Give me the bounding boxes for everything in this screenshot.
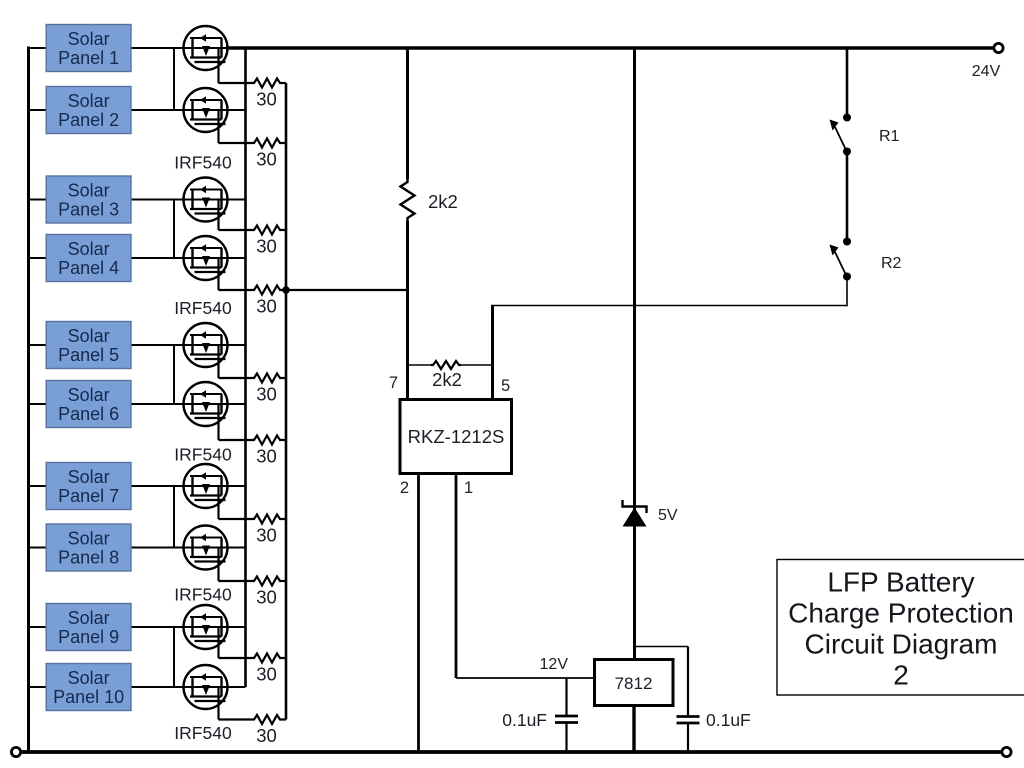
svg-text:Solar: Solar <box>68 668 110 688</box>
svg-text:Panel 8: Panel 8 <box>58 548 119 568</box>
svg-text:Solar: Solar <box>68 528 110 548</box>
svg-text:Panel 4: Panel 4 <box>58 258 119 278</box>
svg-text:0.1uF: 0.1uF <box>706 710 751 730</box>
svg-text:Solar: Solar <box>68 29 110 49</box>
svg-text:Panel 2: Panel 2 <box>58 110 119 130</box>
svg-text:IRF540: IRF540 <box>174 153 232 173</box>
svg-text:IRF540: IRF540 <box>174 585 232 605</box>
svg-text:Circuit Diagram: Circuit Diagram <box>805 629 998 660</box>
svg-text:30: 30 <box>256 384 277 405</box>
svg-text:Solar: Solar <box>68 91 110 111</box>
svg-text:Solar: Solar <box>68 385 110 405</box>
svg-text:1: 1 <box>464 479 473 497</box>
svg-text:Solar: Solar <box>68 239 110 259</box>
svg-text:Panel 9: Panel 9 <box>58 627 119 647</box>
svg-text:Solar: Solar <box>68 180 110 200</box>
svg-text:30: 30 <box>256 525 277 546</box>
svg-text:30: 30 <box>256 664 277 685</box>
svg-text:7: 7 <box>389 374 398 392</box>
svg-text:Solar: Solar <box>68 326 110 346</box>
svg-text:24V: 24V <box>972 63 1001 80</box>
svg-text:Panel 1: Panel 1 <box>58 48 119 68</box>
svg-text:30: 30 <box>256 725 277 746</box>
svg-text:30: 30 <box>256 149 277 170</box>
svg-text:Panel 5: Panel 5 <box>58 345 119 365</box>
svg-text:2: 2 <box>400 479 409 497</box>
svg-text:Panel 3: Panel 3 <box>58 200 119 220</box>
svg-text:Charge Protection: Charge Protection <box>788 598 1014 629</box>
svg-text:2k2: 2k2 <box>432 369 462 390</box>
svg-text:30: 30 <box>256 89 277 110</box>
svg-text:30: 30 <box>256 296 277 317</box>
svg-text:2: 2 <box>893 660 909 691</box>
svg-text:Solar: Solar <box>68 467 110 487</box>
svg-text:30: 30 <box>256 236 277 257</box>
svg-text:12V: 12V <box>540 656 569 673</box>
svg-text:IRF540: IRF540 <box>174 445 232 465</box>
svg-text:Panel 7: Panel 7 <box>58 486 119 506</box>
svg-text:5V: 5V <box>658 507 678 524</box>
svg-text:Panel 10: Panel 10 <box>53 687 124 707</box>
svg-text:Solar: Solar <box>68 608 110 628</box>
svg-text:R1: R1 <box>879 128 900 145</box>
svg-text:30: 30 <box>256 446 277 467</box>
svg-text:Panel 6: Panel 6 <box>58 404 119 424</box>
svg-text:R2: R2 <box>881 255 902 272</box>
svg-text:30: 30 <box>256 587 277 608</box>
svg-text:RKZ-1212S: RKZ-1212S <box>408 426 505 447</box>
svg-text:IRF540: IRF540 <box>174 723 232 743</box>
svg-text:2k2: 2k2 <box>428 191 458 212</box>
svg-text:5: 5 <box>501 377 510 395</box>
svg-text:LFP Battery: LFP Battery <box>827 567 974 598</box>
svg-text:0.1uF: 0.1uF <box>502 710 547 730</box>
svg-text:7812: 7812 <box>615 674 653 693</box>
svg-text:IRF540: IRF540 <box>174 298 232 318</box>
